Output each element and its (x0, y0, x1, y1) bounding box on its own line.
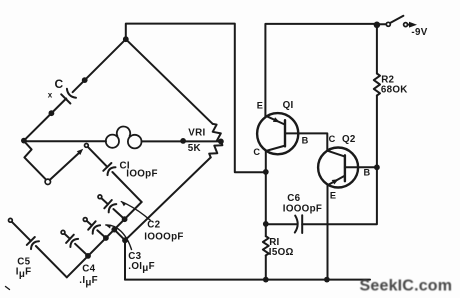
svg-text:.OIμF: .OIμF (128, 261, 155, 274)
svg-text:E: E (257, 100, 263, 110)
svg-text:SeekIC.com: SeekIC.com (360, 278, 453, 295)
svg-text:C: C (253, 147, 260, 157)
svg-text:C: C (55, 77, 64, 91)
svg-text:QI: QI (283, 100, 294, 111)
svg-text:C6: C6 (287, 193, 300, 204)
svg-text:IOOOpF: IOOOpF (144, 232, 183, 243)
svg-text:I5OΩ: I5OΩ (269, 247, 294, 258)
svg-text:C4: C4 (82, 264, 95, 275)
svg-text:E: E (330, 190, 336, 200)
svg-text:5K: 5K (188, 143, 201, 154)
svg-text:VRI: VRI (188, 127, 205, 138)
svg-text:B: B (364, 168, 371, 178)
svg-text:x: x (48, 91, 53, 100)
svg-text:.IμF: .IμF (79, 275, 98, 288)
svg-text:Q2: Q2 (342, 134, 356, 145)
svg-text:C: C (329, 134, 336, 144)
svg-text:IOOOpF: IOOOpF (283, 203, 322, 214)
svg-text:68OK: 68OK (381, 84, 408, 95)
svg-text:IOOpF: IOOpF (126, 169, 157, 180)
svg-text:B: B (302, 135, 309, 145)
svg-text:C2: C2 (147, 220, 160, 231)
svg-text:IμF: IμF (16, 267, 32, 280)
svg-text:-9V: -9V (411, 27, 427, 38)
